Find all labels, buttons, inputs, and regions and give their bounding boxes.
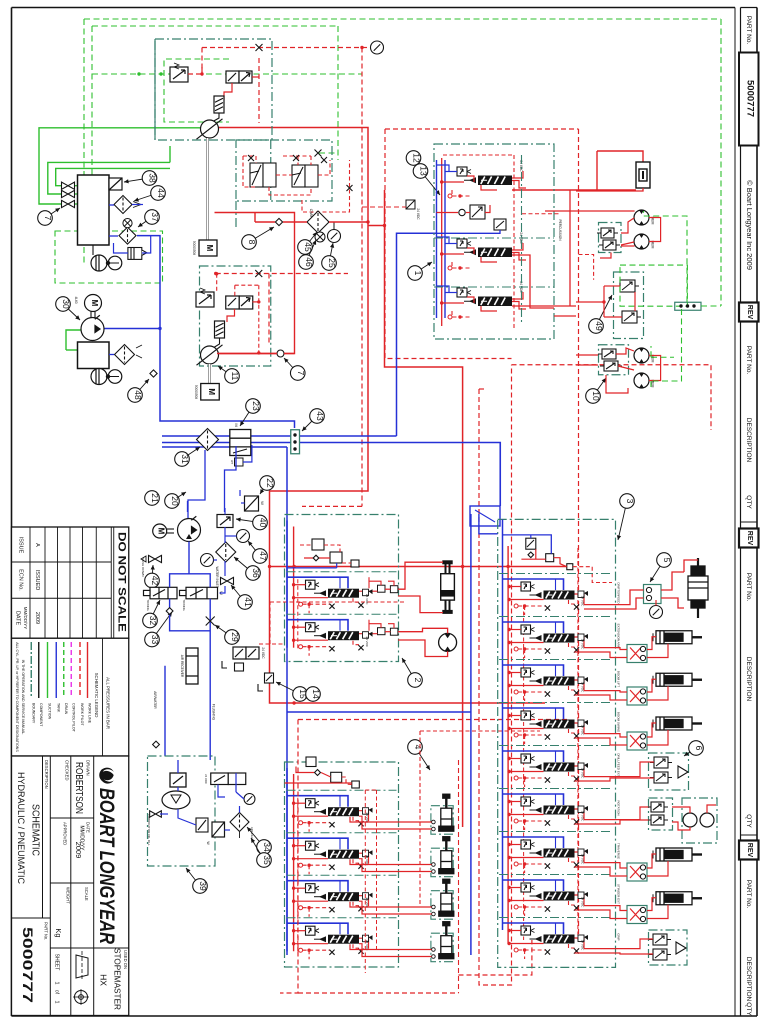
legend line WORK LINE	[87, 642, 89, 698]
svg-text:PART No.: PART No.	[745, 573, 752, 602]
module 3 row 8	[499, 875, 613, 917]
oil tank power unit	[78, 342, 110, 369]
manual valve V2	[62, 190, 75, 197]
node ref bubble 33	[145, 612, 172, 647]
blue down from pump	[188, 542, 190, 574]
red work line trunk main	[215, 128, 571, 828]
svg-text:31: 31	[180, 454, 190, 464]
red wiring mid drifter	[437, 212, 459, 214]
svg-text:APPROVED: APPROVED	[62, 822, 67, 845]
node ref bubble 2	[402, 658, 423, 687]
wire P1 accum to union	[212, 113, 219, 122]
svg-text:7: 7	[43, 216, 53, 221]
svg-text:24 VDC: 24 VDC	[581, 725, 585, 736]
module 2 top components	[312, 539, 359, 567]
module 4 top components	[306, 757, 359, 788]
check arrow 44	[133, 202, 141, 208]
node ref bubble 12	[406, 151, 422, 166]
legend line DRAIN	[63, 642, 65, 698]
schematic legend box	[12, 638, 129, 756]
valve 32 33 assembly A	[144, 587, 178, 599]
bank module pilot dashed bus	[297, 798, 299, 954]
power unit M motor 30	[85, 295, 102, 312]
svg-text:4: 4	[413, 745, 423, 750]
svg-text:13: 13	[419, 166, 429, 176]
red dashed pilot top	[202, 47, 362, 49]
svg-text:7: 7	[296, 371, 306, 376]
gauge mid	[328, 230, 341, 243]
node ref bubble 13	[413, 164, 440, 195]
drifter red dashed wiring	[513, 155, 515, 330]
regulator P2	[196, 288, 214, 307]
blue lower loop valves	[170, 599, 211, 631]
svg-text:14: 14	[311, 689, 321, 699]
svg-text:20: 20	[170, 496, 180, 506]
svg-text:12: 12	[412, 153, 422, 163]
red lines to cylinder	[398, 562, 443, 589]
solenoid flag 12	[406, 200, 415, 209]
red fuse connections	[576, 188, 643, 191]
blue pipe tank filter	[109, 354, 114, 356]
red motor feed lines top	[545, 210, 635, 212]
svg-text:M: M	[157, 528, 166, 535]
svg-text:39: 39	[198, 881, 208, 891]
green dashed drain trunk top	[84, 19, 721, 306]
svg-text:GRIP: GRIP	[617, 933, 621, 940]
blue wiring lubricator	[177, 760, 179, 773]
manual valve V1	[62, 182, 75, 189]
diamond filter 31	[197, 429, 219, 451]
green dashed manifold 3dot	[675, 302, 701, 310]
svg-text:24 VDC: 24 VDC	[204, 774, 208, 784]
svg-text:ALL PRESSURES IN BAR: ALL PRESSURES IN BAR	[105, 677, 110, 729]
blue verticals drifter	[436, 160, 438, 318]
red branch bank2	[368, 225, 385, 227]
pump pair module right	[682, 798, 717, 843]
svg-text:11: 11	[230, 372, 240, 381]
red wiring P1	[224, 83, 232, 100]
gauge near air valve	[244, 794, 255, 805]
port node 7b	[277, 350, 284, 357]
module 3 row 1	[499, 574, 613, 616]
boundary module P2 outer teal	[235, 201, 237, 229]
svg-text:QTY: QTY	[745, 814, 752, 828]
drifter motors teal box	[599, 223, 622, 253]
module 3 row 2	[499, 617, 613, 659]
module 2 top red wiring	[300, 544, 312, 546]
red supply vertical drifter	[441, 158, 443, 326]
svg-text:29: 29	[230, 632, 240, 642]
red dashed module P2 wiring	[216, 273, 348, 275]
blue bottom left corner	[187, 501, 189, 512]
fuse component	[636, 162, 650, 188]
green dashed box around module 49 top	[620, 265, 687, 306]
module 3 top wiring	[503, 535, 552, 554]
accumulator air	[186, 648, 198, 684]
node ref bubble 5	[650, 553, 672, 582]
pilot valve pair P1	[226, 71, 252, 83]
third angle projection symbol	[73, 951, 89, 1005]
red work line to drifter fuse	[512, 189, 636, 191]
node ref bubble 39	[186, 868, 208, 893]
module 3 row 5	[499, 746, 613, 788]
svg-text:REV: REV	[746, 305, 753, 320]
node ref bubble 3	[617, 494, 635, 540]
svg-text:46: 46	[304, 257, 314, 267]
node ref bubble 23	[240, 399, 261, 426]
svg-text:24 VDC: 24 VDC	[581, 854, 585, 865]
shaft P1	[206, 138, 209, 240]
svg-text:6: 6	[694, 746, 704, 751]
node ref bubble 4	[408, 740, 430, 770]
module 3 boundary	[498, 519, 616, 967]
regulator P1	[170, 63, 188, 82]
filter diamond power unit	[115, 345, 135, 365]
svg-text:ECN No.: ECN No.	[18, 569, 24, 591]
svg-text:35: 35	[262, 855, 272, 865]
filter 36	[216, 542, 236, 562]
manual valve V3	[62, 200, 75, 207]
svg-text:30: 30	[61, 299, 71, 309]
svg-text:24 VDC: 24 VDC	[365, 594, 369, 605]
boundary drifter teal	[434, 144, 554, 339]
gauge top right	[371, 41, 384, 54]
title block main	[12, 756, 129, 1016]
node ref bubble 46	[299, 240, 316, 269]
water sep box	[212, 822, 225, 837]
svg-text:SUCTION: SUCTION	[48, 703, 52, 720]
motor box P2	[201, 384, 220, 401]
check filter 44	[114, 196, 132, 214]
rotary union P1	[197, 119, 223, 139]
valve 22 black	[245, 496, 259, 511]
red dashed pilot cross to right modules	[512, 365, 712, 430]
node ref bubble 15	[276, 682, 308, 701]
module 49 teal box	[614, 272, 644, 339]
svg-text:STINGER EXT: STINGER EXT	[617, 884, 621, 904]
svg-text:DESCRIPTION: DESCRIPTION	[745, 418, 752, 463]
svg-text:ISSUED: ISSUED	[34, 570, 40, 591]
cylinder teal box y=848.2	[431, 848, 453, 877]
svg-text:50000508: 50000508	[194, 385, 198, 399]
gauge 47	[237, 530, 250, 543]
svg-text:DRAIN: DRAIN	[64, 703, 68, 715]
svg-text:MM/DD/YY: MM/DD/YY	[23, 607, 28, 630]
node ref bubble 10	[586, 378, 606, 403]
rotary union P2	[197, 345, 223, 365]
gauge left	[201, 554, 214, 567]
svg-text:BOOM SWING: BOOM SWING	[617, 712, 621, 733]
svg-text:M: M	[207, 388, 216, 395]
svg-text:REV: REV	[746, 843, 753, 858]
xvalve+cylinder y=644.5	[627, 645, 647, 663]
rock drill symbol	[688, 558, 708, 618]
red line port	[217, 353, 277, 355]
svg-text:M: M	[234, 423, 239, 426]
svg-text:23: 23	[251, 401, 261, 411]
legend line WORK PILOT	[79, 642, 81, 698]
green dashed stub with cap	[319, 152, 338, 154]
svg-text:© Boart Longyear Inc 2009: © Boart Longyear Inc 2009	[745, 180, 754, 270]
red dashed feed to solenoid	[362, 206, 406, 208]
bank valve row y=635.7	[287, 620, 398, 656]
lubricator regulator	[170, 773, 186, 787]
svg-text:1: 1	[54, 1000, 60, 1003]
svg-text:WEIGHT: WEIGHT	[65, 887, 70, 904]
svg-text:WORK PILOT: WORK PILOT	[80, 703, 84, 726]
drifter mid components	[459, 205, 506, 230]
cylinder teal box y=890.7	[431, 891, 453, 920]
svg-text:24 VDC: 24 VDC	[581, 639, 585, 650]
node ref bubble 1	[408, 262, 432, 280]
red outputs drifter	[512, 255, 554, 308]
svg-text:CONTROL PILOT: CONTROL PILOT	[71, 703, 75, 733]
legend line TANK	[55, 642, 57, 698]
node ref bubble 30	[56, 297, 80, 320]
svg-text:ROBERTSON: ROBERTSON	[73, 762, 84, 814]
svg-text:38: 38	[148, 173, 158, 183]
valve 32 33 assembly B	[180, 587, 218, 599]
legend line COMPONENT	[38, 642, 40, 698]
feed cylinder module 2	[441, 561, 455, 613]
pump pair power unit	[91, 369, 122, 385]
node ref bubble 48	[128, 379, 149, 402]
green dashed box upper-left	[55, 231, 163, 283]
svg-text:BOUNDARY: BOUNDARY	[31, 703, 35, 724]
module pump wiring	[584, 807, 649, 820]
small valve comp2	[265, 673, 274, 683]
svg-text:41: 41	[243, 597, 253, 607]
node ref bubble 36	[234, 557, 261, 580]
svg-text:BOART LONGYEAR: BOART LONGYEAR	[95, 788, 118, 945]
svg-text:5: 5	[662, 558, 672, 563]
svg-text:1: 1	[54, 981, 60, 984]
svg-text:21: 21	[150, 493, 160, 503]
svg-text:AIR RECEIVER: AIR RECEIVER	[180, 655, 184, 678]
node ref bubble 8	[242, 227, 274, 249]
svg-text:QTY: QTY	[745, 1002, 752, 1016]
motors 10 group	[634, 348, 649, 363]
drifter valve bank 1	[437, 160, 527, 198]
node ref bubble 47	[248, 541, 268, 563]
node 48 diamond	[150, 370, 157, 377]
svg-text:WORK LINE: WORK LINE	[88, 703, 92, 724]
svg-text:4L60: 4L60	[74, 296, 78, 303]
svg-text:43: 43	[315, 411, 325, 421]
svg-text:TOWING: TOWING	[146, 599, 150, 610]
node ref bubble 43	[302, 409, 325, 431]
module bottom teal box	[649, 930, 688, 965]
small valve comp	[235, 663, 244, 671]
blue piping upper tank	[109, 204, 114, 206]
svg-text:22: 22	[265, 478, 275, 488]
node ref bubble 11	[218, 366, 240, 383]
red dashed gauge line top	[362, 47, 370, 49]
red dashed center pair	[479, 365, 512, 985]
cylinder teal box y=805.7	[431, 806, 453, 835]
svg-text:24 VDC: 24 VDC	[416, 208, 420, 220]
svg-text:DESCRIPTION: DESCRIPTION	[745, 657, 752, 702]
svg-text:ROTATION: ROTATION	[617, 800, 621, 815]
blue flushing drop	[209, 599, 211, 760]
node ref bubble 21	[145, 491, 161, 506]
module 3 outer trunk blues	[470, 514, 472, 955]
node ref bubble 7	[284, 358, 306, 380]
boundary module P2	[200, 266, 271, 366]
blue line air receiver	[164, 666, 166, 745]
svg-text:5000777: 5000777	[20, 927, 35, 1003]
drifter motor 1	[634, 210, 649, 225]
svg-text:37: 37	[150, 212, 160, 222]
svg-text:DATE: DATE	[85, 822, 90, 833]
module bottom wiring	[584, 939, 653, 949]
svg-text:A: A	[34, 543, 40, 547]
accumulator P2	[215, 321, 225, 338]
svg-text:DRIFTERFEED: DRIFTERFEED	[617, 583, 621, 605]
legend line CONTROL PILOT	[70, 642, 72, 698]
bank module boundary	[285, 515, 399, 662]
svg-text:AIR/WATER: AIR/WATER	[153, 691, 157, 709]
svg-text:ALL CYL, PR, LP, or HP REFER T: ALL CYL, PR, LP, or HP REFER TO COMPONEN…	[15, 642, 19, 752]
svg-text:2: 2	[413, 678, 423, 683]
node ref bubble 44	[134, 186, 166, 202]
svg-text:W: W	[260, 501, 265, 505]
cwm check diamond	[307, 211, 329, 233]
compressor regulator box	[128, 248, 147, 260]
red wiring motors 10	[616, 348, 634, 354]
red lines to motor	[398, 628, 448, 633]
stinger valve 5 box	[644, 585, 662, 604]
svg-text:REV: REV	[746, 531, 753, 546]
svg-text:STOPEMASTER: STOPEMASTER	[113, 948, 123, 1010]
filter 37	[119, 227, 136, 244]
svg-text:SCHEMATIC LEGEND: SCHEMATIC LEGEND	[94, 673, 99, 718]
svg-text:24 VDC: 24 VDC	[581, 897, 585, 908]
svg-text:DESCRIPTION: DESCRIPTION	[745, 957, 752, 1002]
svg-text:M: M	[205, 245, 214, 252]
green suction pump30	[66, 330, 81, 350]
svg-text:CHECKED: CHECKED	[64, 760, 69, 780]
svg-text:COMPONENT: COMPONENT	[39, 703, 43, 727]
svg-text:PART No.: PART No.	[745, 16, 752, 45]
svg-text:of: of	[54, 990, 60, 995]
red dashed long vertical B	[578, 129, 580, 940]
boundary module P1	[155, 39, 272, 140]
svg-text:32: 32	[148, 616, 158, 626]
module 3 row 7	[499, 832, 613, 874]
module 3 inner buses	[502, 519, 504, 930]
valve 40 box	[217, 515, 233, 528]
air inlet filter diamond	[230, 813, 249, 832]
module 3 row 6	[499, 789, 613, 831]
bank valve row y=854.2	[287, 838, 373, 874]
bank valve row y=939.2	[287, 923, 373, 959]
x valve 29	[206, 617, 215, 626]
svg-text:SCHEMATIC: SCHEMATIC	[30, 804, 42, 856]
wire P2 accum to union	[213, 338, 220, 348]
node ref bubble 7	[38, 208, 60, 225]
svg-text:DRILLFEED EXT: DRILLFEED EXT	[617, 753, 621, 776]
node ref bubble 34	[247, 827, 272, 854]
module 2 blue feed	[287, 567, 337, 569]
svg-text:44: 44	[156, 188, 166, 198]
motor box P1	[199, 240, 217, 256]
red dashed solenoid to module2	[259, 643, 284, 645]
module 3 red dashed pilot verticals	[523, 605, 525, 940]
green suction lines tank2	[48, 162, 170, 194]
svg-text:M: M	[90, 300, 99, 307]
green dashed wiring right	[701, 305, 721, 307]
svg-text:IN THE OPERATION AND SERVICE M: IN THE OPERATION AND SERVICE MANUAL	[21, 660, 25, 735]
svg-text:5000777: 5000777	[744, 80, 755, 117]
svg-text:DO NOT SCALE: DO NOT SCALE	[116, 532, 128, 632]
svg-text:FLUSHING: FLUSHING	[212, 704, 216, 721]
svg-text:1: 1	[413, 271, 423, 276]
module 3 row 4	[499, 703, 613, 745]
svg-text:24 VDC: 24 VDC	[581, 940, 585, 951]
svg-text:34: 34	[262, 842, 272, 852]
svg-text:8: 8	[247, 240, 257, 245]
svg-text:LUBRICATOR OIL FILL: LUBRICATOR OIL FILL	[147, 814, 151, 846]
node ref bubble 40	[236, 515, 268, 530]
node diamond 8	[275, 218, 282, 225]
svg-text:33: 33	[150, 635, 160, 645]
svg-text:47: 47	[258, 551, 268, 561]
node ref bubble 14	[306, 687, 322, 702]
red dashed jog into module 49	[579, 255, 594, 280]
svg-text:WT: WT	[230, 460, 234, 465]
svg-text:SHEET: SHEET	[54, 954, 60, 971]
svg-text:3: 3	[625, 499, 635, 504]
legend line SUCTION	[47, 642, 49, 698]
node ref bubble 29	[215, 625, 240, 644]
svg-text:DATE: DATE	[15, 611, 21, 626]
boundary box mid	[236, 140, 332, 201]
module 3 red supply entry	[461, 565, 464, 568]
valve 23 black	[230, 430, 251, 467]
svg-text:10: 10	[591, 391, 601, 401]
pump 30	[81, 315, 104, 340]
red wiring row1 to drill	[584, 590, 644, 605]
drifter valve bank 2	[437, 232, 527, 270]
node ref bubble 32	[143, 600, 160, 628]
svg-text:2009: 2009	[34, 612, 40, 624]
node ref bubble 38	[124, 171, 158, 186]
svg-text:48: 48	[133, 390, 143, 400]
svg-text:PART No.: PART No.	[43, 922, 48, 940]
lubricator boundary	[148, 756, 216, 866]
svg-text:BOOM LIFT: BOOM LIFT	[617, 671, 621, 687]
node ref bubble 35	[251, 838, 272, 867]
cylinder teal box y=933.2	[431, 933, 453, 962]
shaft P2	[208, 364, 211, 383]
M motor lower	[153, 524, 167, 538]
red wiring motors top	[621, 218, 634, 233]
bank valve row y=811.7	[287, 796, 373, 832]
blue loop valve 23 bottom	[243, 445, 252, 462]
svg-text:PERCUSSION: PERCUSSION	[558, 219, 562, 241]
svg-text:QTY: QTY	[745, 495, 752, 509]
air line valve above lubricator	[211, 773, 246, 785]
node ref bubble 42	[145, 565, 161, 588]
Boart Longyear logo	[95, 768, 118, 945]
drifter motor 2	[634, 234, 649, 249]
svg-text:24 VDC: 24 VDC	[581, 596, 585, 607]
svg-text:ISSUE: ISSUE	[18, 537, 24, 554]
red dashed long vertical A	[361, 48, 363, 507]
module 3 top section components	[526, 538, 573, 570]
drifter teal inner dividers	[434, 237, 554, 239]
